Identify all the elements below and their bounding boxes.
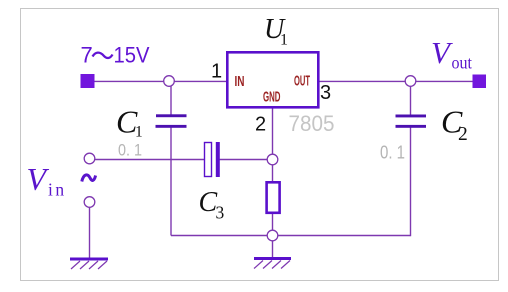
wire: C3 right plate to node under pin 2 xyxy=(220,159,273,161)
svg-text:2: 2 xyxy=(255,114,266,136)
input terminal square xyxy=(81,74,95,88)
wire: Vin top wire to C3 left plate xyxy=(94,159,205,161)
svg-text:1: 1 xyxy=(135,124,143,141)
svg-text:2: 2 xyxy=(458,124,468,145)
label Vout xyxy=(431,35,472,73)
svg-text:1: 1 xyxy=(280,32,288,49)
svg-text:0. 1: 0. 1 xyxy=(118,140,142,159)
svg-text:0. 1: 0. 1 xyxy=(380,143,405,163)
wire: Vin bottom lead down to ground xyxy=(89,206,91,258)
node: Vin + terminal xyxy=(84,153,95,164)
svg-text:in: in xyxy=(48,180,67,200)
label C1 xyxy=(116,103,143,140)
svg-text:1: 1 xyxy=(211,61,222,83)
svg-text:3: 3 xyxy=(216,203,225,223)
node: junction on bottom rail xyxy=(267,230,278,241)
node: Vin - terminal xyxy=(84,197,95,208)
node: junction on left rail above C1 xyxy=(164,76,175,87)
ground (under Vin) xyxy=(70,258,108,270)
wire: C2 top lead xyxy=(410,81,412,115)
svg-text:GND: GND xyxy=(263,89,281,106)
resistor R1 xyxy=(267,182,280,213)
label U1 xyxy=(264,14,288,49)
node: junction of C3 / pin 2 lead xyxy=(267,154,278,165)
wire: C1 bottom lead down to bottom rail xyxy=(170,128,172,236)
wire: resistor bottom lead down to ground xyxy=(272,213,274,258)
svg-text:V: V xyxy=(431,35,453,70)
capacitor C2 xyxy=(396,115,427,118)
capacitor C1 xyxy=(156,114,187,117)
output terminal square xyxy=(473,75,487,89)
label C3 xyxy=(199,187,225,223)
capacitor C3 (electrolytic) xyxy=(205,143,212,177)
op-amp U1 7805 regulator box xyxy=(227,52,318,107)
wire: left rail from input terminal to IN pin xyxy=(93,80,227,82)
wire: bottom rail xyxy=(171,235,411,237)
wire: right rail from OUT pin to output terminal xyxy=(318,80,474,82)
svg-text:out: out xyxy=(452,53,473,73)
label C2 xyxy=(441,104,468,145)
label 7~15V xyxy=(81,43,150,68)
svg-text:IN: IN xyxy=(235,73,245,90)
ground (under bottom rail node) xyxy=(254,257,291,269)
svg-text:15V: 15V xyxy=(114,43,150,68)
label Vin xyxy=(27,161,67,200)
wire: GND pin 2 lead from U1 down to resistor xyxy=(272,108,274,182)
svg-text:7805: 7805 xyxy=(289,111,335,136)
wire: C1 top lead xyxy=(170,81,172,115)
node: junction on right rail above C2 xyxy=(405,76,416,87)
svg-text:3: 3 xyxy=(320,82,331,104)
svg-text:OUT: OUT xyxy=(294,73,310,90)
svg-text:7: 7 xyxy=(81,43,93,68)
wire: C2 bottom lead up from bottom rail xyxy=(410,128,412,237)
AC source tilde xyxy=(82,175,96,182)
